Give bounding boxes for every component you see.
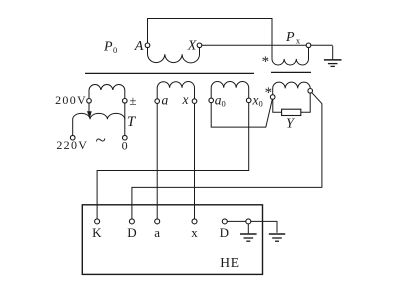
svg-text:A: A <box>134 39 144 54</box>
svg-text:x: x <box>191 225 198 240</box>
ground outer HE <box>269 234 285 241</box>
wire X to ground <box>202 44 333 46</box>
terminal ground link <box>246 219 251 224</box>
terminal A <box>145 43 150 48</box>
resistor Y <box>282 109 301 115</box>
wire A to Px primary <box>148 19 273 59</box>
wire Y to D <box>132 93 322 219</box>
winding a0-x0 <box>211 82 249 98</box>
svg-text:±: ± <box>129 93 136 108</box>
svg-text:a: a <box>154 225 160 240</box>
svg-text:HE: HE <box>220 255 240 270</box>
ground inner HE <box>240 224 257 241</box>
svg-text:x: x <box>182 92 189 107</box>
svg-text:D: D <box>220 225 229 240</box>
wire Y loop <box>273 93 310 112</box>
winding P0 <box>148 48 200 63</box>
terminal a0 <box>209 98 214 103</box>
terminal K <box>95 219 100 224</box>
terminal x HE <box>192 219 197 224</box>
svg-text:*: * <box>265 85 273 101</box>
winding Y secondary <box>273 82 311 94</box>
svg-text:~: ~ <box>95 130 105 151</box>
terminal a <box>155 99 160 104</box>
terminal a HE <box>155 219 160 224</box>
winding T upper <box>89 84 125 98</box>
terminal x0 <box>246 98 251 103</box>
winding T lower <box>73 113 125 135</box>
box HE <box>82 205 262 275</box>
terminal plusminus <box>123 99 128 104</box>
terminal Y right <box>308 89 313 94</box>
svg-text:X: X <box>187 39 197 54</box>
terminal 200V <box>87 99 92 104</box>
svg-text:200V: 200V <box>55 93 87 107</box>
terminal Px right <box>306 43 311 48</box>
core line right <box>271 71 311 73</box>
core line left <box>85 72 254 74</box>
wiper arrow <box>87 103 92 118</box>
terminal Y left <box>270 95 275 100</box>
wire a to HE <box>156 104 158 219</box>
winding Px <box>272 48 309 65</box>
terminal 220V <box>70 135 75 140</box>
terminal D <box>129 219 134 224</box>
wire plusminus to 0 <box>124 103 126 135</box>
terminal D2 <box>222 219 227 224</box>
wire D2 to grounds <box>227 221 277 232</box>
terminal X <box>197 43 202 48</box>
svg-text:D: D <box>127 225 136 240</box>
terminal 0 <box>123 135 128 140</box>
svg-text:K: K <box>92 225 102 240</box>
svg-text:a: a <box>162 93 169 108</box>
ground top right <box>324 46 342 67</box>
wire x0 to K <box>97 103 249 219</box>
winding a-x <box>157 81 194 98</box>
wire a0 to Y winding <box>211 99 272 127</box>
svg-text:0: 0 <box>122 139 128 153</box>
wire x to HE <box>194 104 196 219</box>
terminal x <box>192 99 197 104</box>
svg-text:*: * <box>262 54 270 70</box>
svg-text:220V: 220V <box>56 138 88 152</box>
